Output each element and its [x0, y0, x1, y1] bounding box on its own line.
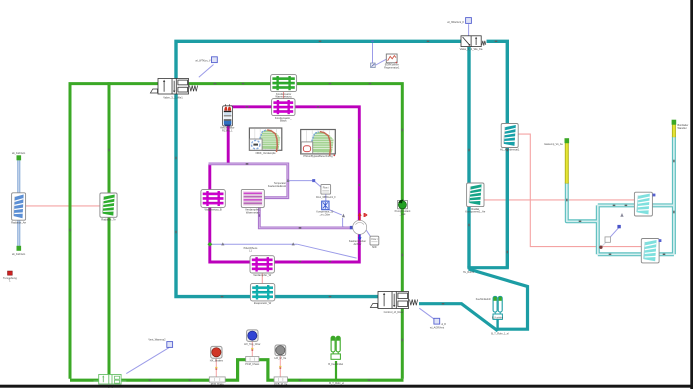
svg-text:ul_R: ul_R [441, 324, 446, 326]
svg-text:Vent_Waermp2: Vent_Waermp2 [148, 339, 166, 342]
svg-text:B_T_Rohr_el: B_T_Rohr_el [329, 382, 344, 385]
svg-text:Valve_3_2_We_Ka: Valve_3_2_We_Ka [460, 47, 483, 51]
svg-text:_nn_Oder: _nn_Oder [318, 213, 330, 216]
svg-text:wl_3WeVent_K: wl_3WeVent_K [447, 21, 464, 24]
svg-text:_Aek: _Aek [399, 212, 407, 216]
svg-text:Komponent1_Ae: Komponent1_Ae [465, 210, 486, 214]
svg-text:dichter: dichter [354, 242, 362, 246]
svg-text:Flow i: Flow i [371, 239, 377, 241]
svg-text:SOF: SOF [372, 246, 377, 249]
svg-text:wl_WTKon_V: wl_WTKon_V [195, 59, 210, 62]
svg-text:Control_of_Rear: Control_of_Rear [384, 310, 404, 314]
svg-text:R134a_1: R134a_1 [222, 129, 233, 133]
svg-text:wl_AGRVent: wl_AGRVent [430, 327, 444, 330]
svg-text:HL_Rohr1: HL_Rohr1 [463, 271, 475, 274]
svg-text:Verdampfer_W: Verdampfer_W [253, 273, 271, 277]
svg-text:Regenerator1: Regenerator1 [384, 66, 400, 69]
svg-text:HX_Top_Char: HX_Top_Char [244, 342, 260, 346]
svg-text:HX_Brakes: HX_Brakes [210, 359, 224, 363]
svg-text:Kuehlmittelroh: Kuehlmittelroh [476, 298, 492, 301]
svg-text:B_Kuehlmi: B_Kuehlmi [492, 318, 504, 320]
svg-text:Waermetau: Waermetau [246, 210, 260, 214]
svg-text:PhConBypassBerechnung: PhConBypassBerechnung [303, 155, 333, 158]
svg-text:Black: Black [280, 119, 287, 123]
svg-text:Waermetau_B: Waermetau_B [205, 208, 222, 212]
svg-text:B_Kuehlmittel: B_Kuehlmittel [328, 363, 343, 366]
svg-text:Gastemp_Vo_Au: Gastemp_Vo_Au [544, 143, 564, 146]
svg-text:Flow i: Flow i [323, 188, 329, 190]
svg-text:Wandler: Wandler [678, 127, 687, 130]
svg-text:Radiator_Te: Radiator_Te [101, 218, 116, 222]
svg-text:NWK_Verdampfe: NWK_Verdampfe [256, 151, 277, 155]
svg-text:Valve_3_2_We1: Valve_3_2_We1 [163, 95, 183, 99]
svg-text:Dru1_WBKUeh1_F: Dru1_WBKUeh1_F [316, 196, 336, 199]
svg-text:Waermetausc: Waermetausc [275, 95, 292, 99]
svg-text:Kaeltemittelkreisl: Kaeltemittelkreisl [268, 185, 287, 188]
svg-text:PCM_Chass: PCM_Chass [245, 363, 260, 366]
svg-text:Radiator_Ae: Radiator_Ae [11, 220, 26, 224]
svg-text:HL_Kondensat1: HL_Kondensat1 [500, 148, 520, 152]
svg-text:HX_M_Ve: HX_M_Ve [275, 356, 287, 360]
svg-text:ab_Fahrtwin: ab_Fahrtwin [12, 253, 26, 256]
svg-text:Evaporator_W: Evaporator_W [254, 301, 272, 305]
svg-text:B_T_Rohr_1_el: B_T_Rohr_1_el [491, 332, 509, 335]
svg-text:ab_Fahrtwin: ab_Fahrtwin [12, 152, 26, 155]
